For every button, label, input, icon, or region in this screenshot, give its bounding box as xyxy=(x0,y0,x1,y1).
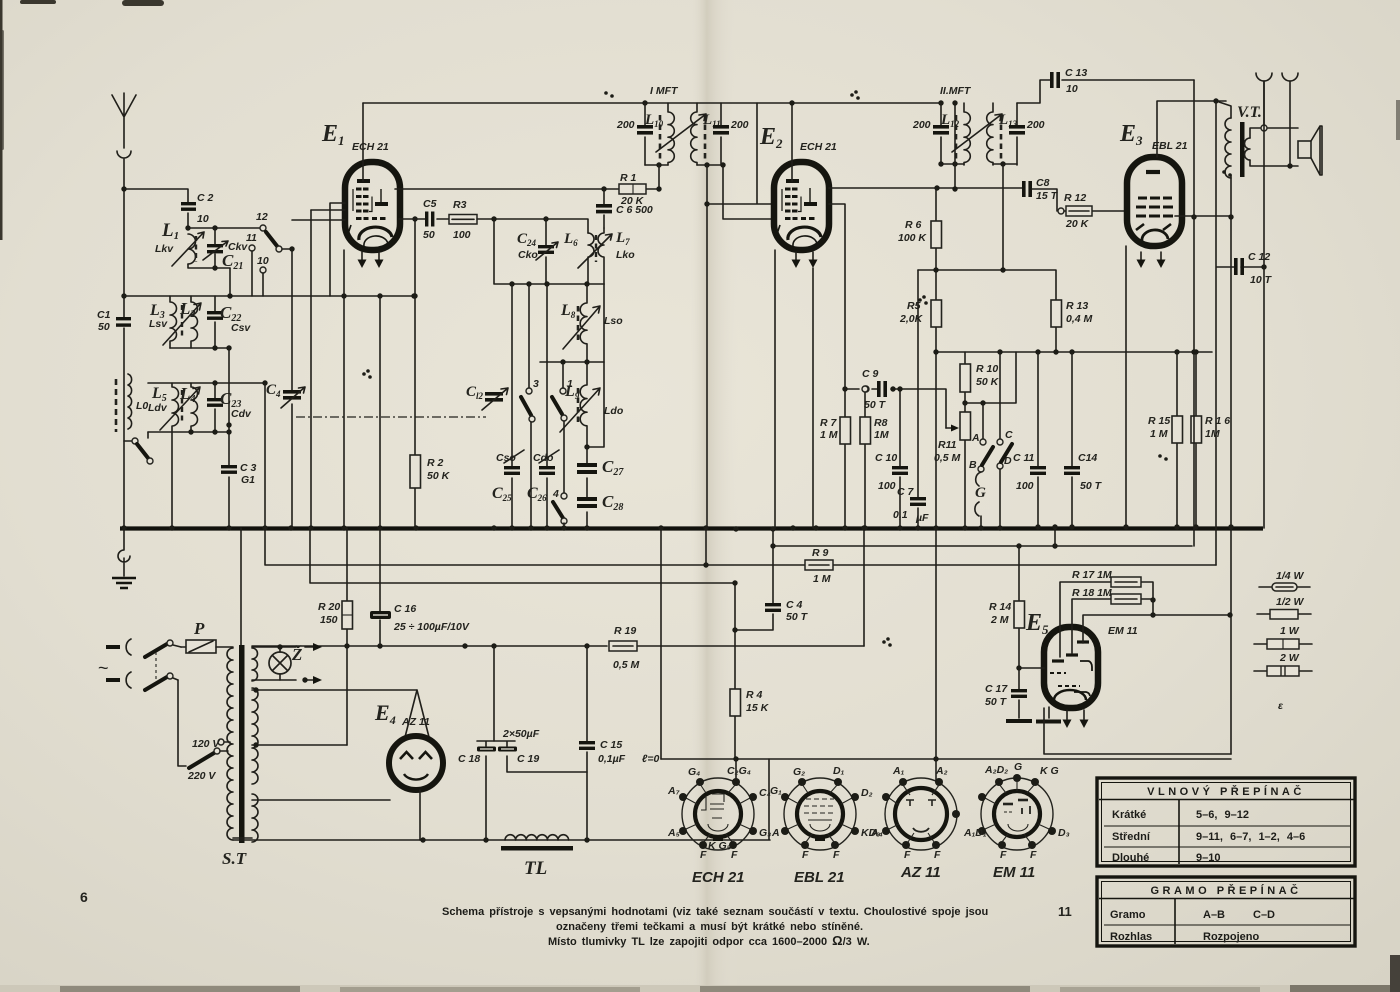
svg-text:R 12: R 12 xyxy=(1064,192,1086,204)
capacitor 200 (II MFT secondary) xyxy=(1009,103,1045,165)
wire: E1 cathode vertical x=344 xyxy=(343,250,345,528)
svg-text:10 T: 10 T xyxy=(1250,274,1273,286)
svg-text:15 K: 15 K xyxy=(746,702,770,714)
E1 filament arrows xyxy=(358,252,384,268)
svg-text:11: 11 xyxy=(246,232,257,244)
wire: oscillator right box vertical xyxy=(587,284,604,447)
capacitor C17 xyxy=(985,668,1027,718)
svg-text:1 M: 1 M xyxy=(813,573,831,585)
trimmer capacitor C21 (Ckv) xyxy=(203,228,248,272)
svg-text:µF: µF xyxy=(915,512,929,524)
wire: rail L1 bottom to oscillator R2 line xyxy=(124,268,414,296)
svg-text:4: 4 xyxy=(552,488,559,500)
wire: x=661 vertical bus to socket rail xyxy=(660,528,662,759)
wire: AVC vertical x=845 xyxy=(829,204,845,528)
svg-text:50: 50 xyxy=(98,321,110,333)
svg-text:9–10: 9–10 xyxy=(1196,852,1220,864)
resistor R4 xyxy=(730,580,770,759)
S.T core xyxy=(239,645,245,843)
resistor R2 xyxy=(410,216,451,528)
svg-text:F: F xyxy=(1000,849,1007,861)
svg-text:V.T.: V.T. xyxy=(1237,104,1262,121)
svg-text:C14: C14 xyxy=(1078,452,1097,464)
capacitor C14 xyxy=(1064,352,1103,528)
svg-text:Střední: Střední xyxy=(1112,831,1151,843)
svg-text:R 18 1M: R 18 1M xyxy=(1072,587,1112,599)
svg-text:1: 1 xyxy=(567,378,573,390)
svg-text:Cso: Cso xyxy=(496,452,516,464)
wire: x=1055 stub from bus xyxy=(1054,528,1056,546)
svg-text:10: 10 xyxy=(1066,83,1078,95)
trimmer capacitor C26 (Cdo) xyxy=(527,284,559,528)
svg-text:F: F xyxy=(731,849,738,861)
page fold shading xyxy=(690,0,738,992)
capacitor C22 (Csv) xyxy=(207,296,251,348)
capacitor C6 xyxy=(596,189,653,228)
antenna coupling hook xyxy=(117,151,131,189)
svg-text:20 K: 20 K xyxy=(1065,218,1090,230)
node: I MFT primary top xyxy=(642,100,647,105)
capacitor C15 xyxy=(579,646,660,840)
resistor R15 xyxy=(1148,352,1183,528)
capacitor C23 (Cdv) xyxy=(207,383,252,432)
tube E3 internals xyxy=(1136,172,1173,241)
svg-text:100: 100 xyxy=(453,229,471,241)
svg-text:I MFT: I MFT xyxy=(650,85,679,97)
wire: E3 cathode down to chassis xyxy=(1125,246,1127,528)
I MFT tuning arrow xyxy=(656,114,706,152)
svg-text:G₄: G₄ xyxy=(688,766,700,778)
svg-text:G₂: G₂ xyxy=(793,766,805,778)
capacitor C28 xyxy=(577,492,623,528)
E3 filament arrows xyxy=(1137,252,1166,268)
svg-text:50 T: 50 T xyxy=(1080,480,1103,492)
svg-text:1 M: 1 M xyxy=(820,429,838,441)
scan bottom edge strip xyxy=(0,985,1400,992)
tube E2 internals xyxy=(776,181,821,246)
wire: socket stubs xyxy=(736,759,936,780)
wire: L1 bottom xyxy=(188,264,230,268)
svg-text:R 4: R 4 xyxy=(746,689,763,701)
svg-text:F: F xyxy=(934,849,941,861)
capacitor C2 xyxy=(181,192,214,225)
wire: E2 top lead xyxy=(791,103,793,181)
coil L3 (Lsv) xyxy=(149,296,177,348)
wire: C13 line down right side xyxy=(1193,80,1195,546)
gramo switch blade B xyxy=(969,447,993,472)
capacitor C9 with AVC contacts xyxy=(842,368,946,428)
scan edge artifacts top-left xyxy=(0,0,164,240)
capacitor C5 xyxy=(423,198,437,241)
svg-text:R 6: R 6 xyxy=(905,219,922,231)
svg-text:1/2 W: 1/2 W xyxy=(1276,596,1305,608)
resistor R10 xyxy=(960,352,1000,403)
svg-text:G₁: G₁ xyxy=(770,785,782,797)
svg-text:50: 50 xyxy=(423,229,435,241)
wire: AVC line into E2 xyxy=(707,103,774,204)
socket ECH 21 xyxy=(667,765,771,886)
node: antenna junction xyxy=(121,186,126,191)
capacitor 200 (II MFT primary) xyxy=(912,103,949,165)
svg-text:50 T: 50 T xyxy=(786,611,809,623)
wire: V.T. secondary to speaker xyxy=(1250,128,1298,166)
svg-text:5–6, 9–12: 5–6, 9–12 xyxy=(1196,809,1249,821)
S.T primary winding xyxy=(227,648,233,840)
wire: E1 anode rail (top) to I MFT and E2 xyxy=(363,102,941,104)
voltage selector blade xyxy=(187,738,230,782)
tube E3 envelope xyxy=(1127,157,1182,246)
svg-text:K G: K G xyxy=(1040,765,1059,777)
svg-text:C8: C8 xyxy=(1036,177,1050,189)
tube E1 internals xyxy=(347,181,392,246)
resistor R16 xyxy=(1191,352,1230,528)
svg-text:100 K: 100 K xyxy=(898,232,927,244)
svg-text:50 T: 50 T xyxy=(985,696,1008,708)
svg-text:C 9: C 9 xyxy=(862,368,879,380)
wire: antenna lead down to bus xyxy=(123,189,125,528)
svg-text:0,5 M: 0,5 M xyxy=(934,452,961,464)
resistor R14 xyxy=(989,546,1025,668)
svg-text:R 9: R 9 xyxy=(812,547,829,559)
wire: oscillator top rail xyxy=(494,219,604,284)
svg-text:B: B xyxy=(969,459,977,471)
node: II MFT top left xyxy=(938,100,943,105)
wire: I MFT secondary down to chassis xyxy=(706,165,708,528)
capacitor C8 xyxy=(1022,177,1059,202)
svg-text:Rozhlas: Rozhlas xyxy=(1110,931,1152,943)
wire: grid rail continues to oscillator coils xyxy=(477,219,588,233)
coil L0 xyxy=(116,374,148,432)
svg-text:C 17: C 17 xyxy=(985,683,1008,695)
gramo switch contact A xyxy=(971,403,986,445)
svg-text:50 K: 50 K xyxy=(976,376,1000,388)
wire: E2 cathode/screen verticals xyxy=(775,250,813,528)
resistor R7 xyxy=(820,417,851,444)
resistor R20 xyxy=(318,528,353,745)
svg-text:S.T: S.T xyxy=(222,849,247,868)
switch: antenna band switch xyxy=(124,432,153,464)
wire: lamp winding rails with pilot lamp xyxy=(252,647,316,680)
capacitor C7 xyxy=(893,270,929,528)
wire: detector rail y=270 xyxy=(918,270,1056,300)
coil L5 (Ldv) xyxy=(148,383,179,528)
wire: blade to grid line node xyxy=(282,248,292,250)
svg-text:0,1µF: 0,1µF xyxy=(598,753,626,765)
svg-text:C 12: C 12 xyxy=(1248,251,1270,263)
svg-text:~: ~ xyxy=(98,658,109,678)
resistor R1 xyxy=(601,165,661,207)
switch contact 10 lower xyxy=(257,255,269,296)
tube E5 envelope xyxy=(1044,627,1098,708)
wire: E2 anode rail to II MFT region xyxy=(829,187,1022,189)
svg-text:EBL 21: EBL 21 xyxy=(794,869,845,886)
switch contact 12 xyxy=(256,211,268,231)
svg-text:GRAMO PŘEPÍNAČ: GRAMO PŘEPÍNAČ xyxy=(1150,884,1301,897)
resistor R3 xyxy=(449,199,477,241)
svg-text:F: F xyxy=(833,849,840,861)
svg-text:A₁D₁: A₁D₁ xyxy=(963,827,987,839)
ganged tuning link (dash-dot) xyxy=(296,416,486,418)
capacitor C3 (G1) xyxy=(221,348,257,528)
E2 filament arrows xyxy=(792,252,818,268)
scan right edge marks xyxy=(1390,100,1400,992)
svg-text:VLNOVÝ PŘEPÍNAČ: VLNOVÝ PŘEPÍNAČ xyxy=(1147,785,1305,798)
speaker xyxy=(1298,126,1322,175)
svg-text:EM 11: EM 11 xyxy=(993,864,1035,881)
svg-text:25 ÷ 100µF/10V: 25 ÷ 100µF/10V xyxy=(393,621,470,633)
coil L4 with core and arrow xyxy=(160,383,200,432)
svg-text:R 7: R 7 xyxy=(820,417,838,429)
wire: top rail to C13 xyxy=(1017,80,1194,103)
S.T secondary winding (HT) xyxy=(252,688,258,784)
svg-text:C 15: C 15 xyxy=(600,739,622,751)
svg-text:10: 10 xyxy=(257,255,269,267)
svg-text:1/4 W: 1/4 W xyxy=(1276,570,1305,582)
wire: E3 top lead to speaker feed xyxy=(1157,101,1226,157)
svg-text:Lkv: Lkv xyxy=(155,243,174,255)
svg-text:A₄: A₄ xyxy=(870,827,883,839)
ground bar (C17) xyxy=(1006,719,1032,723)
wire: socket heater rail xyxy=(661,758,1231,760)
svg-text:A₇: A₇ xyxy=(667,785,680,797)
svg-text:G: G xyxy=(1014,761,1022,773)
svg-text:R 14: R 14 xyxy=(989,601,1011,613)
resistor R18 xyxy=(1072,587,1153,653)
svg-text:A: A xyxy=(971,432,980,444)
svg-text:R 19: R 19 xyxy=(614,625,636,637)
svg-text:D₃: D₃ xyxy=(1058,827,1070,839)
svg-text:1M: 1M xyxy=(874,429,889,441)
svg-text:Místo tlumivky TL lze zapojiti: Místo tlumivky TL lze zapojiti odpor cca… xyxy=(548,933,870,948)
wire: E5 box bottom xyxy=(1044,708,1231,754)
gang tuning capacitor Cl2 xyxy=(466,350,508,445)
svg-text:R11: R11 xyxy=(938,439,957,451)
svg-text:C1: C1 xyxy=(97,309,111,321)
svg-text:C 7: C 7 xyxy=(897,486,915,498)
resistor R5 xyxy=(899,300,942,528)
socket AZ 11 xyxy=(870,765,960,881)
svg-text:C₂G₄: C₂G₄ xyxy=(727,765,751,777)
gramo switch blade D xyxy=(997,444,1012,528)
svg-text:A₁: A₁ xyxy=(892,765,905,777)
svg-text:TL: TL xyxy=(524,858,547,879)
junction dots on chassis bus xyxy=(121,524,1233,531)
capacitor C1 xyxy=(97,309,131,333)
wire: HT winding top tap to E4 anode circuit xyxy=(252,690,430,741)
coil L10 xyxy=(644,103,674,165)
socket EBL 21 xyxy=(770,765,880,886)
tuning capacitor C4 (Ck) gang 1 xyxy=(266,249,305,528)
svg-text:R 10: R 10 xyxy=(976,363,998,375)
svg-text:11: 11 xyxy=(1058,904,1072,919)
coil L7 (Lko) xyxy=(578,228,635,284)
svg-text:AZ 11: AZ 11 xyxy=(900,864,941,881)
pilot lamp Z xyxy=(269,645,302,680)
node: L1 top xyxy=(185,225,190,230)
wire: E4 filament to bottom rail xyxy=(419,790,421,840)
svg-text:120 V: 120 V xyxy=(192,738,220,750)
wire: I MFT bottom rails xyxy=(645,164,721,166)
svg-text:II.MFT: II.MFT xyxy=(940,85,972,97)
capacitor C12 xyxy=(1216,101,1273,565)
svg-text:Cdv: Cdv xyxy=(231,408,252,420)
coil L12 xyxy=(940,103,970,165)
wire: screen rail y=583 xyxy=(310,528,735,583)
svg-text:C 19: C 19 xyxy=(517,753,539,765)
svg-text:50 T: 50 T xyxy=(864,399,887,411)
svg-text:2 M: 2 M xyxy=(990,614,1009,626)
legend resistor 2 W xyxy=(1254,652,1312,676)
svg-text:10: 10 xyxy=(197,213,209,225)
svg-text:R 13: R 13 xyxy=(1066,300,1088,312)
wire: E1 left side leads xyxy=(292,203,345,296)
svg-text:C 4: C 4 xyxy=(786,599,803,611)
tube E5 internals xyxy=(1050,642,1092,700)
svg-text:9–11, 6–7, 1–2, 4–6: 9–11, 6–7, 1–2, 4–6 xyxy=(1196,831,1305,843)
svg-text:R8: R8 xyxy=(874,417,888,429)
svg-text:C5: C5 xyxy=(423,198,437,210)
svg-text:G: G xyxy=(975,485,986,501)
capacitor C10 xyxy=(875,386,908,528)
svg-text:200: 200 xyxy=(912,119,931,131)
svg-text:2 W: 2 W xyxy=(1279,652,1300,664)
coil L1 (Lkv) with trim arrow xyxy=(155,232,204,266)
wire: lower mains lead to voltage selector xyxy=(178,680,186,766)
wire: E3 anode to output transformer xyxy=(1175,215,1231,217)
wire: R14 to E5 cathode xyxy=(1019,667,1044,669)
wire: HT winding tap to R20 line xyxy=(252,744,347,746)
wire: II MFT bottom rails xyxy=(941,163,1017,165)
svg-text:C 13: C 13 xyxy=(1065,67,1087,79)
wire: C2 branch from antenna xyxy=(124,189,188,228)
svg-text:A: A xyxy=(771,827,780,839)
svg-text:ECH 21: ECH 21 xyxy=(800,141,837,153)
svg-text:označeny třemi tečkami a musí: označeny třemi tečkami a musí být krátké… xyxy=(556,921,863,933)
capacitor C4 (AF coupling) xyxy=(735,528,809,630)
svg-text:R 2: R 2 xyxy=(427,457,444,469)
svg-text:R 1 6: R 1 6 xyxy=(1205,415,1230,427)
svg-text:D₁: D₁ xyxy=(833,765,845,777)
svg-text:R3: R3 xyxy=(453,199,467,211)
svg-text:ℓ=0: ℓ=0 xyxy=(642,753,660,765)
wire: B+ rail y=546 xyxy=(773,545,1192,547)
trimmer capacitor C24 (Cko) xyxy=(517,219,558,284)
svg-text:F: F xyxy=(802,849,809,861)
wire: AVC bus rail y=352 xyxy=(936,351,1212,353)
svg-text:15 T: 15 T xyxy=(1036,190,1059,202)
coil L9 (Ldo) xyxy=(560,362,624,447)
ground bar (E5 cathode) xyxy=(1036,707,1061,724)
svg-text:0,4 M: 0,4 M xyxy=(1066,313,1093,325)
resistor R12 xyxy=(1058,192,1127,230)
resistor R19 xyxy=(609,625,640,671)
V.T. primary coil xyxy=(1225,118,1231,178)
potentiometer R11 xyxy=(934,403,971,528)
wire: II MFT primary return to anode rail xyxy=(954,103,956,189)
wire: E1 top grid lead xyxy=(362,103,364,181)
wire: E1 triode anode to R1 xyxy=(395,188,604,190)
legend resistor 1/2 W xyxy=(1257,596,1311,619)
svg-text:C 2: C 2 xyxy=(197,192,214,204)
gramo switch contact C xyxy=(997,352,1013,445)
svg-text:C 11: C 11 xyxy=(1013,452,1035,464)
band switch: oscillator section blade B xyxy=(552,365,573,493)
speaker terminals xyxy=(1256,73,1298,169)
wire: bottom return rail xyxy=(233,759,770,840)
svg-text:2×50µF: 2×50µF xyxy=(502,728,540,740)
S.T secondary winding (filament) xyxy=(252,794,258,842)
svg-text:K G₅: K G₅ xyxy=(708,840,731,852)
antenna xyxy=(112,93,136,148)
svg-text:Dlouhé: Dlouhé xyxy=(1112,852,1149,864)
svg-text:Krátké: Krátké xyxy=(1112,809,1146,821)
svg-text:ECH 21: ECH 21 xyxy=(352,141,389,153)
svg-text:F: F xyxy=(1030,849,1037,861)
II MFT tuning arrow xyxy=(952,114,1002,152)
svg-text:Lsv: Lsv xyxy=(149,318,168,330)
svg-text:A₂D₂: A₂D₂ xyxy=(984,764,1008,776)
svg-text:100: 100 xyxy=(1016,480,1034,492)
svg-text:C 3: C 3 xyxy=(240,462,257,474)
svg-text:C 10: C 10 xyxy=(875,452,897,464)
switch blade (band) xyxy=(266,232,282,252)
wire: V.T. primary leads xyxy=(1219,102,1231,217)
E5 filament arrows xyxy=(1063,710,1089,728)
svg-text:12: 12 xyxy=(256,211,268,223)
switch contact 11 xyxy=(246,232,257,296)
capacitor 200 (I MFT primary) xyxy=(616,103,653,165)
wire: switch to fuse xyxy=(173,645,181,680)
wire: E1 triode grid rail with C5 R3 xyxy=(399,218,449,220)
wire: E1 grid lead vertical x=311 xyxy=(310,210,312,528)
coil L11 xyxy=(691,103,721,165)
wire: speaker return down to chassis bus end xyxy=(1263,81,1265,528)
legend resistor 1 W xyxy=(1254,625,1312,649)
coil L2 with core and arrow xyxy=(163,296,201,348)
svg-text:R 17 1M: R 17 1M xyxy=(1072,569,1112,581)
wire: AF rail y=564 with corner down xyxy=(265,528,1216,565)
wire: screen vertical x=380 xyxy=(379,296,381,528)
coil L13 xyxy=(987,103,1018,165)
svg-text:Cko: Cko xyxy=(518,249,538,261)
svg-text:A₅: A₅ xyxy=(667,827,680,839)
wire: core screen to bus xyxy=(240,528,242,645)
svg-text:Ž: Ž xyxy=(291,645,302,664)
svg-text:1 W: 1 W xyxy=(1280,625,1300,637)
svg-text:AZ 11: AZ 11 xyxy=(401,716,430,728)
svg-text:Ldv: Ldv xyxy=(148,402,168,414)
wire: L1 top rail to band switch contact 12 xyxy=(188,227,260,229)
wire: x=936 vertical bus to socket rail xyxy=(935,528,937,759)
trimmer capacitor C25 (Cso) xyxy=(492,284,524,528)
legend resistor 1/4 W xyxy=(1259,570,1310,591)
svg-text:R 1: R 1 xyxy=(620,172,637,184)
wire: primary top lead xyxy=(231,646,233,648)
svg-text:R 20: R 20 xyxy=(318,601,340,613)
svg-text:C 6 500: C 6 500 xyxy=(616,204,653,216)
tube E1 envelope xyxy=(345,162,400,250)
wire: oscillator mid rail xyxy=(540,361,604,363)
wire: filament winding to E4 xyxy=(233,800,390,838)
wire: V.T. primary bottom long vertical xyxy=(1230,217,1232,754)
svg-text:C: C xyxy=(1005,429,1013,441)
svg-text:100: 100 xyxy=(878,480,896,492)
wire: II MFT secondary to detector xyxy=(1002,164,1004,270)
wire: contact-11/10 rail feeds xyxy=(264,383,266,528)
capacitor 200 (I MFT secondary) xyxy=(713,103,749,165)
wire: supply rail y=646 xyxy=(252,645,864,647)
wire: B+ from C18 junction xyxy=(493,646,495,741)
